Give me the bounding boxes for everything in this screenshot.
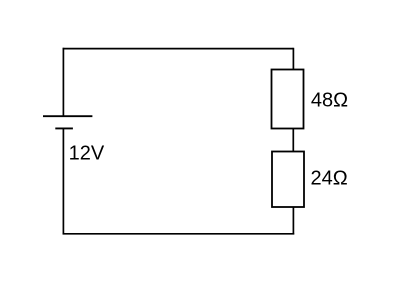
svg-text:12V: 12V [69,143,105,165]
svg-text:24Ω: 24Ω [311,167,348,189]
svg-text:48Ω: 48Ω [311,90,348,112]
